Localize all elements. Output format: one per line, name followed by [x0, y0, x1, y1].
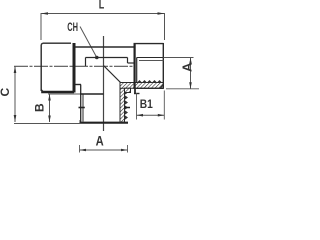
body top edge [76, 46, 135, 48]
right nut bottom edge [134, 87, 164, 89]
stud bottom thick edge [80, 122, 129, 124]
right nut right edge [162, 43, 164, 88]
right port bottom wall hatch [120, 83, 164, 89]
stud bottom left chamfer [80, 121, 82, 124]
dimension L right extension line [164, 13, 166, 40]
right port under-nut step horizontal [134, 93, 140, 95]
dimension A bottom left arrow [80, 149, 87, 152]
stud left thread root line [82, 94, 84, 122]
dimension L line [41, 13, 165, 15]
stud right thread serration [125, 90, 129, 120]
right port female thread serration [137, 80, 162, 83]
stud left runout tick [79, 107, 85, 109]
stud right runout tick [124, 107, 130, 109]
dimension C line [14, 66, 16, 122]
dimension B1 line [137, 114, 165, 116]
svg-text:B1: B1 [140, 99, 153, 112]
dimension A right bottom extension [166, 88, 199, 90]
dimension B1 right arrow [158, 114, 165, 117]
horizontal centerline [14, 65, 136, 67]
svg-text:A: A [96, 133, 104, 148]
right port under-nut step vertical [134, 88, 136, 94]
svg-text:CH: CH [67, 21, 78, 34]
hex flat line [86, 57, 128, 59]
dimension B bottom arrow [48, 116, 51, 123]
dimension C bottom arrow [14, 115, 17, 122]
right nut top edge [134, 43, 164, 45]
female thread end vertical [136, 58, 138, 83]
svg-text:B: B [33, 103, 47, 112]
hex flat left vertical [85, 58, 87, 67]
dimension C top arrow [14, 66, 17, 73]
female port face chamfer [160, 85, 164, 89]
CH leader line [80, 27, 97, 58]
vertical branch centerline [103, 36, 105, 131]
dimension A bottom right arrow [121, 149, 128, 152]
dimension A bottom line [80, 149, 128, 151]
female thread crest line [137, 57, 164, 59]
cavity end vertical [127, 58, 129, 64]
dimension A bottom right extension [127, 145, 129, 153]
dimension B top extension line [48, 93, 80, 95]
dimension A right bottom arrow [189, 82, 192, 89]
dimension C bottom extension line [14, 123, 80, 125]
svg-text:A: A [180, 62, 195, 72]
dimension A right line [190, 58, 192, 89]
left nut body [41, 43, 71, 91]
section diagonal edge [104, 66, 121, 83]
body underside left of stud [76, 84, 82, 86]
left nut bottom-left chamfer [41, 90, 43, 93]
dimension B1 right extension [163, 91, 165, 120]
dimension L left extension line [40, 13, 42, 40]
dimension L right arrow [158, 12, 165, 15]
right nut left thick edge [134, 43, 136, 88]
dimension A right top extension [164, 57, 194, 59]
CH leader dot [95, 56, 99, 60]
cavity end horizontal [128, 62, 135, 64]
dimension A bottom left extension [79, 145, 81, 153]
dimension L left arrow [41, 12, 48, 15]
stud thread shoulder line [80, 93, 104, 95]
dimension B1 left extension [136, 93, 138, 120]
dimension B top arrow [48, 94, 51, 101]
washer thick line [73, 43, 76, 93]
dimension B1 left arrow [137, 114, 144, 117]
stud right wall hatch [120, 83, 125, 123]
dimension B line [49, 94, 51, 122]
dimension A right top arrow [189, 58, 192, 65]
corner step detail [125, 88, 131, 92]
female thread root line [139, 60, 164, 62]
svg-text:C: C [0, 88, 12, 97]
svg-text:L: L [99, 0, 105, 12]
stud left outer edge [80, 85, 82, 123]
left nut bottom thick edge [41, 91, 74, 93]
